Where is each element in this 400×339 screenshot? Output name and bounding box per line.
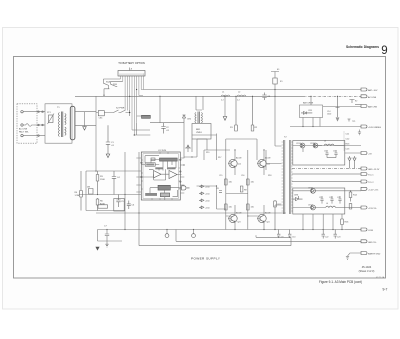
resistor R101 (235, 96, 238, 131)
verticals right mid (303, 208, 361, 230)
transformer T104 secondary (290, 140, 293, 214)
svg-text:BAT CHGR: BAT CHGR (303, 102, 314, 105)
rail 241 (176, 230, 361, 242)
svg-text:1M: 1M (87, 187, 90, 189)
chassis symbol A (165, 230, 169, 238)
wire S102 to bridge (128, 110, 130, 116)
thermistor RT101 (48, 114, 55, 125)
svg-text:R19: R19 (206, 152, 209, 154)
output line rows right (290, 90, 361, 127)
svg-text:9-7: 9-7 (383, 288, 388, 292)
diode CR110 (199, 185, 204, 188)
bridge CR101 label block (132, 115, 150, 135)
cap C108 (219, 191, 222, 193)
U102 inner block driver (158, 185, 170, 190)
svg-text:CR16: CR16 (308, 188, 313, 190)
transistor Q101 (228, 150, 237, 175)
svg-text:C10: C10 (292, 237, 295, 239)
bridge rectifier U101 box (192, 124, 211, 140)
switch S102 power (112, 110, 128, 113)
resistor R103 (96, 171, 99, 195)
diode CR112 (199, 199, 204, 202)
capacitor C106 (127, 201, 131, 210)
svg-text:C15: C15 (219, 175, 222, 177)
diode CR113 (199, 206, 204, 209)
svg-text:A1049: A1049 (236, 212, 241, 215)
U102 inner resistor blocks (145, 158, 155, 166)
output connector P8 (292, 180, 367, 183)
dash-dot gnd bus (292, 167, 361, 169)
resistor R116 (341, 218, 344, 230)
svg-text:S2 PWR: S2 PWR (116, 108, 125, 110)
resistor R106 (96, 198, 99, 211)
transformer T101 box (45, 104, 72, 143)
U102 pin circles (141, 159, 181, 182)
wire bus +BAT (144, 89, 362, 91)
svg-text:C19: C19 (319, 197, 322, 199)
caps in box A (303, 146, 345, 158)
svg-text:CR8: CR8 (308, 110, 312, 112)
wire drop to regulator (137, 96, 160, 135)
snubber R112 (274, 200, 277, 230)
box right top partial (300, 105, 323, 118)
svg-text:GND -15.2V: GND -15.2V (368, 169, 380, 171)
bottom right caps row (322, 230, 337, 239)
ground arrow (223, 96, 227, 120)
svg-text:9: 9 (381, 45, 387, 57)
resistor R109 (240, 186, 243, 192)
mid horizontals (184, 150, 248, 194)
zener VR101 (185, 145, 191, 148)
svg-text:L3: L3 (324, 141, 326, 143)
svg-text:CR14: CR14 (296, 143, 301, 145)
svg-text:1.5M: 1.5M (75, 195, 80, 197)
choke L102 (237, 95, 246, 96)
output connector P2 (361, 95, 367, 98)
wire rail 229 (98, 229, 346, 231)
svg-text:C17: C17 (324, 151, 327, 153)
svg-text:BAT CHG: BAT CHG (368, 106, 377, 109)
resistor R105 (89, 189, 94, 195)
output connector P12 (361, 240, 367, 243)
U102 inner block PWM (160, 158, 178, 161)
svg-text:C20: C20 (329, 197, 332, 199)
left ladder bottom rail (86, 210, 125, 212)
wire fuse to T1 (34, 124, 45, 126)
crystal Y101 box (98, 205, 108, 208)
junction node (130, 113, 135, 136)
buffer gate U102b (179, 186, 190, 190)
top rail feeds (192, 135, 257, 139)
terminal E102 (350, 100, 355, 104)
transistor Q103 (228, 205, 237, 230)
svg-text:C23: C23 (337, 237, 340, 239)
svg-text:S1A: S1A (106, 81, 110, 84)
resistor R111 (247, 203, 250, 210)
svg-text:TCL 2: TCL 2 (368, 182, 374, 184)
svg-text:CR17: CR17 (308, 205, 313, 207)
ground chassis at T101 (83, 112, 87, 130)
svg-text:4172-1A: 4172-1A (376, 276, 385, 279)
diode CR104 (313, 143, 322, 148)
output rectifier box B (293, 188, 345, 214)
resistor R110 (225, 203, 228, 210)
diodes to gnd (348, 156, 356, 168)
ground chassis left (96, 247, 99, 250)
svg-text:+15V 5%: +15V 5% (368, 208, 377, 210)
wire to ladder (96, 96, 108, 171)
output connector P3 (355, 105, 367, 108)
transformer T101 secondary winding (65, 114, 66, 136)
svg-text:+10V UNREG: +10V UNREG (368, 127, 381, 129)
svg-text:POWER SUPPLY: POWER SUPPLY (191, 257, 220, 261)
wire bundle from J101 (121, 76, 144, 135)
svg-text:C22: C22 (325, 237, 328, 239)
fuse F102 (23, 124, 33, 127)
filter choke L103 (324, 144, 334, 145)
transformer T101 core (62, 112, 63, 138)
svg-text:C16: C16 (241, 175, 244, 177)
wire T101 out top (75, 111, 96, 113)
AC input dashed box (17, 104, 37, 143)
svg-text:U1 3524: U1 3524 (158, 150, 167, 152)
AC plug pin E (21, 134, 23, 136)
U102 pin stubs (136, 158, 184, 193)
svg-text:C21: C21 (337, 197, 340, 199)
output connector P11 (345, 228, 367, 231)
connector J101 battery option header (118, 68, 145, 77)
mid rail 213 (96, 212, 286, 214)
output connector P4 (361, 125, 367, 128)
svg-text:S1B: S1B (113, 84, 117, 86)
U102 internal wires (141, 156, 181, 200)
AC plug pin L (21, 111, 23, 113)
diode CR103 (293, 143, 361, 148)
output connector P5 (361, 152, 367, 155)
resistor R115 (349, 203, 352, 209)
capacitor C102 (150, 123, 184, 134)
left ladder mid rail (79, 194, 141, 196)
svg-text:TO BATTERY OPTION: TO BATTERY OPTION (118, 61, 145, 65)
svg-text:COM: COM (368, 230, 373, 232)
transistor Q104 (257, 205, 266, 230)
box component T103 (114, 199, 124, 212)
transformer T101 primary winding (58, 113, 59, 137)
diode CR109 (336, 96, 340, 121)
drive wires Q103 Q104 (197, 186, 258, 216)
svg-text:CR15: CR15 (310, 143, 315, 145)
rail 245 (139, 213, 291, 246)
U102 block error amp (167, 167, 176, 169)
U102 comparator A (154, 171, 162, 178)
label column block (343, 131, 345, 151)
resistor R104 (80, 171, 83, 211)
AC plug pin N (21, 124, 23, 126)
wire plug E (23, 135, 45, 137)
capacitor C104 (112, 171, 116, 195)
wire T101 out mid (75, 124, 96, 126)
svg-text:1000: 1000 (327, 114, 331, 116)
svg-text:AC LINE: AC LINE (368, 96, 377, 99)
wire plug L to T1 (23, 111, 45, 113)
resistor R102 (251, 96, 254, 131)
choke L101 (221, 95, 230, 96)
transistor Q102 (257, 150, 266, 175)
svg-text:TP1: TP1 (352, 121, 355, 123)
terminal circles at line select (38, 111, 44, 137)
testpoint TP101 (348, 119, 351, 122)
output connector P10 (361, 206, 367, 209)
svg-text:A1049: A1049 (265, 157, 270, 160)
cap C107 to ground (98, 230, 123, 248)
cap C110 (288, 230, 291, 239)
rail 237 (256, 235, 291, 237)
svg-text:45-1024: 45-1024 (362, 265, 372, 269)
svg-text:C9: C9 (281, 237, 283, 239)
diode CR102 (182, 115, 185, 123)
output connector P7 (292, 173, 367, 176)
U102 comparator B (169, 171, 177, 179)
svg-text:C18: C18 (333, 151, 336, 153)
diode CR106 (293, 196, 303, 201)
base network resistors R108 (247, 178, 250, 185)
driver verticals (192, 90, 275, 230)
svg-text:TCL 1: TCL 1 (368, 175, 374, 177)
diode CR111 (199, 192, 204, 195)
resistor R114 (349, 191, 352, 202)
svg-text:+5.2V +5%: +5.2V +5% (368, 189, 378, 191)
svg-text:E2: E2 (355, 101, 357, 103)
shield plate (70, 106, 75, 140)
circuit breaker CB101 (96, 111, 112, 116)
capacitor C105 (116, 195, 120, 208)
wire bus AC line (75, 95, 303, 97)
left ladder top rail (86, 170, 141, 172)
output rectifier box A (293, 141, 345, 166)
ground top right (358, 130, 361, 135)
U102 block ref reg (155, 167, 163, 169)
svg-text:FACT SEL: FACT SEL (19, 130, 30, 133)
cap C109 (277, 230, 280, 239)
svg-text:+5V: +5V (368, 154, 372, 156)
caps box B (320, 196, 341, 204)
svg-text:(Sheet 3 of 3): (Sheet 3 of 3) (359, 269, 375, 273)
regulator U102 outline box (141, 152, 180, 200)
svg-text:BAT +10V: BAT +10V (368, 89, 378, 92)
transformer T104 primary (282, 140, 285, 214)
chassis symbol B (192, 230, 196, 238)
svg-text:L4: L4 (326, 203, 328, 205)
T104 primary connections (266, 140, 281, 207)
transformer T102 (195, 96, 203, 123)
output connector P1 (361, 88, 367, 91)
svg-text:R17: R17 (218, 157, 221, 159)
svg-text:R18: R18 (268, 175, 271, 177)
switch S101 (103, 79, 122, 95)
svg-text:AC LINE: AC LINE (19, 128, 28, 131)
capacitor C103 (262, 93, 266, 101)
svg-text:Schematic Diagrams: Schematic Diagrams (346, 44, 380, 49)
terminal E101 (271, 72, 279, 90)
base network resistors R107 (225, 178, 228, 185)
svg-text:150K: 150K (100, 179, 105, 181)
svg-text:Figure 9-1. A3 Main PCB (cont): Figure 9-1. A3 Main PCB (cont) (319, 280, 362, 284)
output connector P9 (361, 187, 367, 190)
svg-text:VM18: VM18 (196, 132, 202, 134)
left ladder verticals (86, 152, 139, 230)
output connector P13 earth (346, 252, 367, 260)
HV rail verticals (184, 123, 192, 165)
node dots on buses (104, 90, 338, 127)
regulator U103 box (343, 155, 345, 157)
svg-text:A1049: A1049 (265, 212, 270, 215)
wire to +5V out (345, 152, 361, 154)
output connector P6 (361, 167, 367, 170)
svg-text:A1049: A1049 (236, 157, 241, 160)
schematic border frame (14, 57, 386, 279)
U102 inner block osc (145, 193, 157, 196)
svg-text:GND 5%: GND 5% (368, 242, 376, 244)
diode CR107 (293, 205, 326, 210)
svg-text:EARTH GND: EARTH GND (368, 253, 381, 256)
capacitor C101 (106, 125, 110, 157)
choke L104 (326, 206, 362, 207)
diode CR105 (293, 188, 361, 193)
